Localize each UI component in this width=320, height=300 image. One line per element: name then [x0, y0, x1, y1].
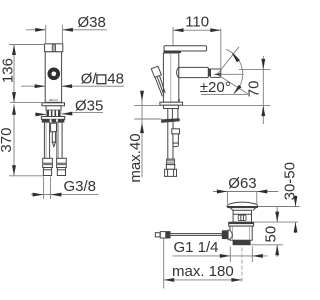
body side	[163, 53, 178, 102]
rim extension line	[258, 206, 300, 208]
svg-text:70: 70	[245, 81, 262, 98]
swivel arc	[226, 49, 243, 93]
dimension O/sq 48	[21, 70, 124, 88]
left hose connector G3/8	[43, 158, 53, 175]
svg-text:max. 180: max. 180	[172, 263, 234, 280]
svg-text:110: 110	[185, 13, 209, 30]
flange extension line	[254, 221, 298, 223]
side sub-base	[164, 105, 179, 108]
ball joint	[228, 230, 232, 240]
side base flange	[160, 99, 183, 105]
side hose tube	[168, 109, 173, 160]
swivel fan origin arrow	[213, 73, 221, 76]
drain flange	[229, 222, 254, 226]
mounting bracket side	[161, 118, 180, 123]
dimension G1 1/4	[173, 239, 268, 262]
dimension G3/8	[31, 177, 99, 199]
dimension max.40	[127, 91, 161, 183]
base flange front	[42, 103, 65, 106]
dimension 110	[173, 13, 221, 69]
dimension max. 180	[164, 239, 242, 289]
dimension O35	[35, 97, 103, 116]
svg-text:370: 370	[0, 128, 15, 153]
side stud tube	[172, 109, 178, 121]
svg-text:G1 1/4: G1 1/4	[174, 239, 219, 256]
drain neck	[230, 208, 255, 222]
escutcheon front	[41, 117, 64, 123]
faucet top block	[45, 44, 63, 52]
swivel fan lines	[218, 47, 248, 94]
body top dark band	[164, 51, 182, 53]
svg-text:Ø63: Ø63	[228, 175, 256, 192]
ball joint knob	[222, 230, 228, 239]
dimension 370	[0, 103, 43, 176]
right supply hose	[57, 122, 62, 159]
spout dark ring	[209, 69, 211, 77]
svg-text:Ø38: Ø38	[78, 14, 106, 31]
drain lower body	[230, 226, 252, 240]
lever bar top	[164, 46, 207, 51]
pull rod	[155, 232, 222, 238]
knob ring	[48, 68, 61, 81]
dimension 30-50	[282, 162, 299, 233]
drain centerline	[241, 248, 243, 283]
thread band G1 1/4	[233, 240, 251, 245]
center mounting stud	[51, 123, 57, 146]
svg-text:50: 50	[262, 226, 279, 243]
svg-text:136: 136	[0, 58, 16, 83]
svg-text:±20°: ±20°	[200, 79, 231, 96]
svg-text:Ø/: Ø/	[81, 70, 98, 87]
svg-text:G3/8: G3/8	[64, 178, 97, 195]
neck front	[46, 106, 61, 110]
dimension 136	[0, 45, 45, 103]
stud/hose tops front	[46, 110, 61, 116]
svg-text:Ø35: Ø35	[75, 97, 103, 114]
aerator tip box	[211, 69, 221, 77]
right hose connector G3/8	[57, 158, 67, 175]
thread bottom extension line	[251, 244, 283, 246]
arc arrow bottom	[234, 85, 242, 94]
drain dome cap	[227, 202, 258, 208]
svg-text:48: 48	[107, 70, 124, 87]
dimension 70	[239, 56, 270, 124]
svg-text:KEUCO: KEUCO	[49, 98, 58, 102]
side hose fitting	[165, 159, 177, 176]
arc arrow top	[232, 52, 240, 62]
overflow window	[238, 215, 246, 221]
faucet body front	[45, 52, 61, 103]
dimension O38	[26, 14, 107, 44]
dimension +-20	[200, 79, 248, 96]
svg-text:30-50: 30-50	[282, 162, 299, 200]
countertop line	[134, 105, 270, 107]
left supply hose	[44, 122, 49, 159]
svg-text:max.40: max.40	[127, 133, 144, 182]
lever paddle	[151, 66, 165, 96]
dimension O63	[213, 175, 279, 204]
spout	[177, 67, 209, 77]
dimension 50	[262, 207, 279, 257]
stud nut side	[172, 129, 180, 147]
